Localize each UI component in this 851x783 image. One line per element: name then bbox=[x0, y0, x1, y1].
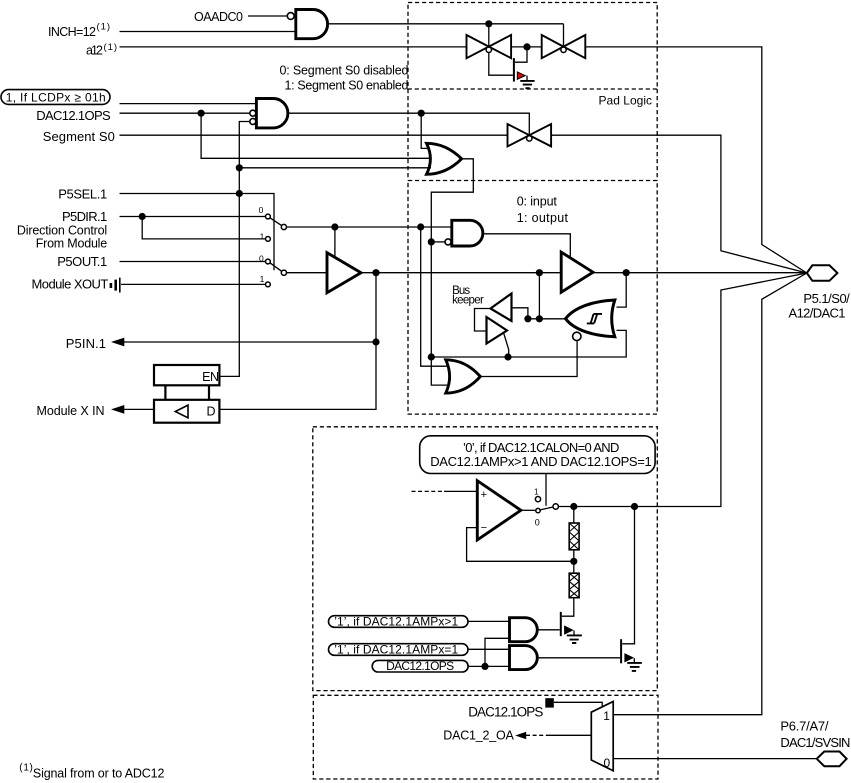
node: junction on P5SEL vertical bbox=[236, 164, 243, 171]
svg-text:’0’, if DAC12.1CALON=0 AND: ’0’, if DAC12.1CALON=0 AND bbox=[463, 440, 619, 455]
wire: drop to tristate buffer enable bbox=[334, 227, 336, 257]
mux2 pole bbox=[281, 270, 286, 275]
node: junction main line keeper drop bbox=[536, 269, 543, 276]
svg-text:(1): (1) bbox=[104, 42, 118, 53]
wire: vertical P5SEL/EN bus with elbow to U2 third input bubble bbox=[219, 122, 249, 377]
svg-text:P6.7/A7/: P6.7/A7/ bbox=[780, 719, 828, 734]
arrow: NMOS2 bbox=[625, 654, 633, 662]
wire: mux2 pole to buffer input bbox=[286, 272, 327, 274]
wire: P5DIR.1 line bbox=[120, 216, 266, 218]
svg-text:1: 1 bbox=[260, 231, 265, 241]
wire: Module XOUT line bbox=[121, 283, 266, 285]
transmission gate T1 (a12) bbox=[467, 35, 512, 58]
and A1 bbox=[510, 618, 538, 642]
wire: Module X IN from latch bbox=[124, 408, 154, 410]
dashed box: analog switch section (top) bbox=[408, 3, 657, 90]
NMOS1 (calibration pulldown) bbox=[561, 612, 582, 643]
svg-text:0: Segment S0 disabled: 0: Segment S0 disabled bbox=[280, 63, 409, 77]
svg-text:P5OUT.1: P5OUT.1 bbox=[57, 254, 107, 269]
wire: pillA to and A1 bbox=[468, 620, 510, 622]
wire: OPS branch up to and A1 lower input bbox=[485, 638, 510, 666]
svg-text:a12: a12 bbox=[86, 44, 103, 58]
wire: node vertical down to latch D input bbox=[219, 273, 376, 410]
opamp switch contact 0 bbox=[536, 508, 540, 512]
wire: OR U6 lower input from keeper wire bbox=[431, 357, 448, 385]
wire: OAADC0 lead bbox=[248, 15, 287, 17]
wire: T1 complement control to ESD gate bbox=[489, 52, 513, 75]
node: junction main node bbox=[372, 269, 379, 276]
schmitt trigger gate (mirrored) bbox=[566, 300, 615, 337]
svg-text:OAADC0: OAADC0 bbox=[194, 10, 243, 24]
svg-text:P5IN.1: P5IN.1 bbox=[66, 336, 106, 351]
wire: mux M1 port 0 to P6.7 pin bbox=[613, 758, 817, 760]
wire: P5SEL.1 line to mux select bbox=[120, 194, 275, 271]
wire: pill annotation to switch bbox=[545, 474, 547, 506]
svg-text:0: 0 bbox=[603, 756, 610, 770]
node: junction buf enable bbox=[331, 223, 338, 230]
mux2 contact 1 bbox=[266, 282, 271, 287]
svg-text:P5SEL.1: P5SEL.1 bbox=[58, 187, 107, 202]
node: junction on P5DIR line bbox=[139, 213, 146, 220]
svg-text:0: input: 0: input bbox=[517, 194, 558, 208]
opamp switch contact 1 bbox=[535, 497, 540, 502]
select square: DAC12.1OPS bbox=[545, 698, 554, 707]
wire: P5DIR branch to mux1 contact 1 bbox=[142, 217, 265, 239]
wire: opamp output to switch contact bbox=[521, 509, 536, 511]
transmission gate T2 bbox=[542, 35, 586, 58]
latch: D box bbox=[154, 400, 219, 423]
wire: switch lever bbox=[540, 507, 553, 510]
wire: P5SEL branch to OR U5 third input bbox=[239, 167, 431, 169]
svg-text:1: 1 bbox=[534, 487, 539, 496]
arrow: Module X IN (points left) bbox=[111, 405, 124, 414]
wire: pillB to and A2 bbox=[468, 648, 510, 650]
wire: Segment S0 line bbox=[120, 134, 508, 136]
dashed box: Pad Logic (side edges only, shared top/bottom) bbox=[408, 89, 657, 181]
bubble U1 input bbox=[287, 13, 294, 20]
bubble T1 control bbox=[486, 47, 491, 52]
wire: up to keeper upper inverter input bbox=[512, 308, 528, 319]
pill: 1, If LCDPx >= 01h bbox=[1, 90, 110, 105]
mux2 contact 0 bbox=[266, 259, 271, 264]
wire: ESD fet drain from mid node bbox=[515, 47, 527, 62]
node: junction resistor top bbox=[570, 503, 577, 510]
wire: mux M1 port 1 to pin bbox=[613, 273, 807, 715]
wire: P5OUT.1 line bbox=[120, 261, 266, 263]
node: junction schmitt out / main drop bbox=[536, 315, 543, 322]
input inversion bubbles bbox=[250, 13, 581, 341]
wire: NMOS2 source bbox=[633, 658, 635, 663]
bubble T3 control bbox=[527, 136, 532, 141]
svg-text:DAC1_2_OA: DAC1_2_OA bbox=[443, 728, 514, 742]
latch: neck bbox=[165, 385, 209, 400]
wire: main output line buffer to pin bbox=[361, 272, 807, 274]
pill: '1', if DAC12.1AMPx>1 bbox=[329, 616, 469, 628]
pill: DAC12.1OPS bbox=[372, 660, 468, 672]
wire: DAC12.1OPS line bbox=[120, 112, 250, 114]
wire: switch pole to DAC out node bbox=[558, 273, 806, 507]
Module XOUT crystal bars bbox=[111, 278, 120, 293]
bubble schmitt enable bbox=[573, 332, 581, 340]
pad driver buffer bbox=[561, 252, 593, 292]
or U5 (pad logic enable) bbox=[427, 143, 462, 174]
wire: control drop to T1 center bbox=[488, 24, 490, 47]
node: junction between resistors bbox=[570, 558, 577, 565]
svg-text:Signal from or to ADC12: Signal from or to ADC12 bbox=[33, 766, 165, 780]
wire: DAC1_2_OA dashed bbox=[526, 734, 549, 736]
node: junction at nand U4 bubble input bbox=[428, 238, 435, 245]
wire: P5IN.1 line bbox=[124, 341, 376, 343]
svg-text:1, If LCDPx ≥ 01h: 1, If LCDPx ≥ 01h bbox=[6, 90, 106, 104]
wire: ESD source to ground bbox=[526, 76, 528, 81]
mux1 pole bbox=[281, 224, 286, 229]
latch: clock triangle bbox=[175, 405, 188, 418]
svg-text:keeper: keeper bbox=[452, 295, 484, 307]
wire: NMOS2 drain from DAC out line bbox=[622, 507, 634, 644]
svg-text:Module X IN: Module X IN bbox=[37, 404, 105, 418]
node: junction main node right bbox=[623, 269, 630, 276]
schmitt hysteresis symbol bbox=[587, 314, 602, 324]
arrow: P5IN.1 (points left) bbox=[111, 338, 124, 347]
svg-text:1: 1 bbox=[603, 709, 610, 723]
svg-text:From Module: From Module bbox=[36, 237, 108, 251]
wire: T2 output to pin (right vertical + diagonal) bbox=[585, 47, 807, 273]
wire: pillC DAC12.1OPS to and A2 bbox=[468, 665, 509, 667]
svg-text:−: − bbox=[481, 522, 487, 534]
logic gate symbols bbox=[256, 10, 614, 670]
wire: drop to OR U6 top input bbox=[421, 227, 448, 366]
mux1 contact 0 bbox=[266, 214, 271, 219]
node: junction on U2 output bbox=[418, 110, 425, 117]
wire: keeper output horizontal, up into schmitt lower input bbox=[431, 330, 626, 357]
wire: nand U1 output to switch controls bbox=[328, 23, 564, 25]
wire: between transmission gates T1 and T2 bbox=[511, 46, 542, 48]
svg-text:P5.1/S0/: P5.1/S0/ bbox=[803, 291, 850, 306]
bubble T2 control bbox=[561, 47, 566, 52]
ESD pulldown fet (red arrow) bbox=[514, 58, 535, 88]
tristate output buffer bbox=[327, 253, 361, 293]
node: junction on DAC12.1OPS line bbox=[198, 110, 205, 117]
pill: '0' if DAC12.1CALON pill bbox=[420, 436, 655, 474]
svg-text:DAC12.1OPS: DAC12.1OPS bbox=[386, 659, 454, 673]
latch: EN box bbox=[154, 365, 219, 423]
wire: nand U2 output to segment switch control bbox=[288, 113, 529, 135]
wire: OR U5 output elbow down to U4 bubble line bbox=[431, 159, 473, 357]
svg-text:DAC12.1AMPx>1 AND DAC12.1OPS=1: DAC12.1AMPx>1 AND DAC12.1OPS=1 bbox=[430, 454, 652, 469]
node: junction between T1 and T2 bbox=[523, 43, 530, 50]
svg-text:+: + bbox=[481, 489, 487, 501]
wire: DAC1_2_OA solid part bbox=[549, 734, 592, 736]
wire: and A2 output to NMOS2 gate bbox=[537, 657, 620, 659]
mux digit labels bbox=[259, 205, 265, 284]
opamp switch pole bbox=[553, 504, 558, 509]
nand U4 (output enable) bbox=[452, 220, 483, 246]
svg-text:DAC1/SVSIN: DAC1/SVSIN bbox=[780, 735, 850, 750]
keeper inverter upper (points left) bbox=[491, 294, 512, 322]
node: junction P5IN tap bbox=[372, 338, 379, 345]
wire: DAC12.1OPS branch down to OR U5 input bbox=[201, 113, 431, 158]
node: junction OPS branch bbox=[481, 663, 488, 670]
node: junction on bus-keeper output wire bbox=[428, 353, 435, 360]
svg-text:(1): (1) bbox=[19, 762, 33, 773]
node: junction keeper top input bbox=[524, 315, 531, 322]
svg-text:0: 0 bbox=[259, 205, 264, 215]
mux1 contact 1 bbox=[266, 237, 271, 242]
svg-text:INCH=12: INCH=12 bbox=[48, 25, 96, 39]
wire: keeper lower inverter output diagonal bbox=[504, 333, 509, 358]
wire: mux1 lever bbox=[270, 218, 282, 226]
svg-text:EN: EN bbox=[202, 370, 219, 384]
svg-text:’1’, if DAC12.1AMPx=1: ’1’, if DAC12.1AMPx=1 bbox=[334, 642, 458, 656]
wire: schmitt output to keeper bbox=[528, 318, 566, 320]
wire: a12 line bbox=[120, 46, 467, 48]
arrow: DAC1_2_OA (points left) bbox=[515, 732, 526, 739]
node: junction NMOS2 drain tap bbox=[631, 503, 638, 510]
wire: mux1 pole to nand U4 top input bbox=[286, 226, 452, 228]
bubble U2 input 2 bbox=[250, 110, 256, 116]
svg-text:D: D bbox=[206, 405, 215, 419]
wire: INCH=12 input bbox=[120, 31, 296, 33]
opamp DAC1 bbox=[477, 481, 521, 540]
svg-text:(1): (1) bbox=[97, 22, 111, 33]
wire: LCDPx pill to nand U2 bbox=[120, 103, 257, 105]
pill: '1', if DAC12.1AMPx=1 bbox=[329, 644, 469, 656]
wire: segment switch T3 output to pin bbox=[551, 135, 807, 273]
node: junction P5SEL bbox=[236, 190, 243, 197]
wire: and A1 output to NMOS1 gate bbox=[537, 629, 560, 631]
dashed box: bottom mux section bbox=[313, 695, 658, 779]
wire: main line drop to keeper bbox=[538, 273, 540, 319]
svg-text:1: Segment S0 enabled: 1: Segment S0 enabled bbox=[285, 79, 409, 93]
node: junction to OR U6 bbox=[417, 223, 424, 230]
wire: control drop to T2 center bbox=[563, 24, 565, 47]
NMOS2 (OPS pulldown) bbox=[621, 639, 642, 671]
svg-text:DAC12.1OPS: DAC12.1OPS bbox=[36, 108, 111, 123]
wire: NMOS1 source bbox=[573, 631, 575, 636]
wire: branch down to OR U5 top input bbox=[421, 113, 430, 148]
nand U1 (OAADC0/INCH) bbox=[296, 10, 328, 39]
svg-text:DAC12.1OPS: DAC12.1OPS bbox=[468, 705, 543, 720]
wire: bottom select square to mux M1 bbox=[554, 702, 602, 707]
wire: keeper feedback loop left side bbox=[475, 309, 491, 332]
transmission gates bbox=[467, 35, 586, 146]
or U6 (bus keeper enable) bbox=[446, 360, 481, 393]
node: junction keeper diag bbox=[504, 353, 511, 360]
bus keeper inverters bbox=[487, 294, 512, 344]
svg-text:1: output: 1: output bbox=[517, 211, 569, 225]
wire: to nand U4 bubble bbox=[431, 241, 445, 243]
and A2 bbox=[510, 646, 538, 670]
nand U2 (LCDPx/DAC12.1OPS/P5SEL) bbox=[256, 99, 288, 128]
wire: DAC opamp + input (dashed from ADC) bbox=[412, 490, 445, 492]
wire: nand U4 output to pad driver enable bbox=[483, 234, 571, 258]
svg-text:Pad Logic: Pad Logic bbox=[599, 94, 653, 108]
svg-text:A12/DAC1: A12/DAC1 bbox=[789, 306, 846, 321]
dashed box: I/O logic bbox=[408, 181, 657, 415]
resistor R2 (hatched box) bbox=[569, 573, 579, 598]
pin pad: P5.1/S0/A12/DAC1 hexagon bbox=[807, 265, 838, 281]
pin pad: P6.7/A7/DAC1/SVSIN hexagon bbox=[817, 752, 847, 767]
arrow: NMOS1 bbox=[565, 626, 573, 634]
svg-text:Segment S0: Segment S0 bbox=[43, 129, 115, 144]
wire: resistor chain verticals bbox=[562, 507, 574, 617]
wire: opamp feedback from - input to resistor mid bbox=[467, 528, 574, 562]
arrow: ESD fet (red) bbox=[517, 72, 525, 79]
node: junction on nand output above T1 bbox=[485, 20, 492, 27]
wire: OR U6 output up into schmitt enable bubble bbox=[480, 341, 577, 376]
svg-text:0: 0 bbox=[259, 253, 264, 263]
svg-text:Module XOUT: Module XOUT bbox=[32, 277, 109, 292]
keeper inverter lower (points right) bbox=[487, 317, 508, 344]
resistor R1 (hatched box) bbox=[569, 523, 579, 550]
bubble U4 lower input bbox=[445, 239, 451, 245]
svg-text:’1’, if DAC12.1AMPx>1: ’1’, if DAC12.1AMPx>1 bbox=[334, 614, 458, 628]
wire: schmitt top input from main node bbox=[617, 273, 627, 307]
wire: mux2 lever bbox=[270, 263, 282, 272]
bubble U2 input 3 bbox=[250, 119, 256, 125]
dashed box: DAC section bbox=[313, 427, 658, 691]
mux M1 trapezoid bbox=[591, 702, 613, 771]
svg-text:0: 0 bbox=[535, 517, 540, 527]
svg-text:P5DIR.1: P5DIR.1 bbox=[62, 209, 107, 224]
transmission gate T3 (Segment S0) bbox=[508, 124, 552, 146]
svg-text:Direction Control: Direction Control bbox=[17, 223, 107, 237]
svg-text:1: 1 bbox=[260, 274, 265, 284]
